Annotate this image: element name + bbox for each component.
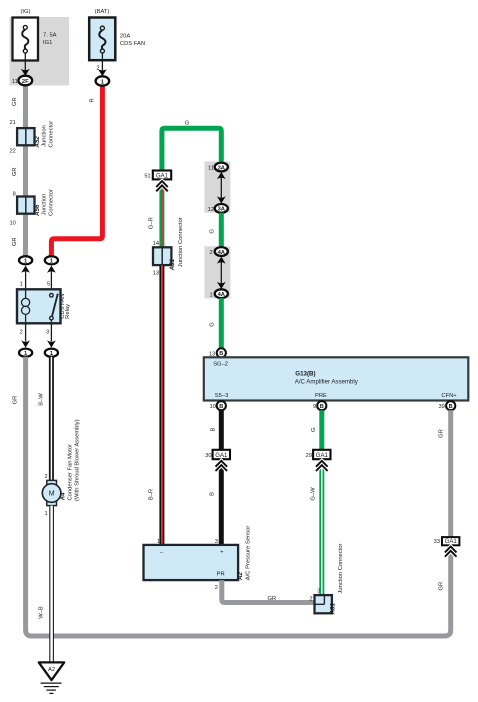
svg-text:33: 33	[434, 539, 440, 545]
svg-text:GR: GR	[12, 97, 18, 106]
svg-text:G: G	[209, 322, 215, 327]
svg-text:IG1: IG1	[43, 40, 52, 46]
shield chevron (GA1 33)	[445, 547, 457, 557]
svg-text:GR: GR	[12, 396, 18, 405]
wire GR (pin 39 to GA1 33)	[448, 410, 453, 537]
node B (pin 39 CFN+)	[446, 401, 455, 410]
svg-text:B–W: B–W	[38, 393, 44, 406]
svg-text:30: 30	[205, 453, 211, 459]
svg-text:A2: A2	[48, 667, 55, 673]
fuse IG1 7.5A	[13, 9, 57, 61]
svg-text:A31: A31	[329, 602, 336, 615]
svg-text:20A: 20A	[120, 33, 130, 39]
svg-text:Junction: Junction	[42, 194, 48, 216]
svg-text:Connector: Connector	[48, 189, 54, 216]
svg-text:A/C Pressure Sensor: A/C Pressure Sensor	[245, 526, 251, 581]
arrowhead into oval (relay pin 1)	[21, 266, 30, 273]
connector oval 1 (below relay pin 3)	[45, 349, 58, 357]
svg-text:5: 5	[47, 282, 50, 288]
svg-text:3A: 3A	[218, 165, 226, 171]
svg-text:Junction Connector: Junction Connector	[338, 543, 344, 593]
svg-text:B–R: B–R	[148, 489, 154, 500]
svg-text:10: 10	[9, 220, 15, 226]
svg-text:1: 1	[45, 511, 48, 517]
junction connector A52	[9, 120, 54, 155]
svg-text:3A: 3A	[218, 207, 226, 213]
junction connector A56	[9, 189, 54, 226]
arrowhead into oval (below relay pin 3)	[47, 340, 56, 347]
svg-text:10: 10	[209, 404, 215, 410]
wire B (GA1 30 to sensor pin 3)	[219, 459, 224, 545]
connector oval 1 (relay pin 5 side)	[45, 256, 58, 264]
A/C pressure sensor A2	[144, 526, 252, 581]
svg-text:GR: GR	[439, 429, 445, 438]
junction connector A31	[315, 543, 344, 615]
ground A2	[39, 662, 64, 693]
svg-text:51: 51	[144, 173, 150, 179]
svg-text:G–W: G–W	[310, 487, 316, 501]
svg-text:G: G	[185, 120, 190, 126]
svg-text:B: B	[210, 427, 216, 431]
svg-text:Condenser Fan Motor: Condenser Fan Motor	[67, 444, 73, 500]
svg-text:G: G	[209, 229, 215, 234]
svg-text:4A: 4A	[218, 292, 226, 298]
shield point GA1 (33)	[442, 537, 459, 545]
fuse CDS FAN 20A (BAT)	[89, 9, 145, 60]
svg-text:9: 9	[313, 404, 316, 410]
node B (pin 9 PRE)	[317, 401, 326, 410]
connector line fuse IG1 to 2F	[24, 53, 26, 71]
svg-text:Connector: Connector	[48, 121, 54, 148]
svg-text:Junction: Junction	[42, 125, 48, 147]
svg-text:22: 22	[9, 149, 15, 155]
svg-text:2: 2	[309, 596, 312, 602]
svg-text:B: B	[320, 404, 324, 410]
connector pair 4A (pins 2/1)	[204, 246, 230, 298]
svg-text:GR: GR	[12, 237, 18, 246]
svg-text:11: 11	[12, 79, 18, 85]
svg-text:GR: GR	[267, 596, 276, 602]
connector oval 2F	[18, 76, 32, 86]
ground point GA1 (51)	[153, 171, 171, 180]
svg-text:G13(B): G13(B)	[295, 370, 315, 377]
svg-text:M: M	[49, 489, 55, 498]
wire relay pin 3 lead	[50, 323, 52, 341]
svg-text:3: 3	[46, 329, 49, 335]
shield point GA1 (30)	[213, 450, 230, 459]
svg-text:1: 1	[20, 282, 23, 288]
svg-text:A4: A4	[59, 492, 66, 501]
svg-text:2F: 2F	[22, 79, 29, 85]
svg-text:2: 2	[210, 250, 213, 256]
connector oval 1 (relay pin 1 side)	[19, 256, 32, 264]
motor A4 condenser fan motor	[42, 419, 80, 505]
svg-text:R: R	[90, 98, 96, 102]
wire G (top loop GA1 to connector 3A)	[162, 128, 221, 170]
svg-text:2: 2	[45, 474, 48, 480]
svg-text:PR: PR	[217, 571, 225, 577]
wire G-R (GA1 51 to A51 pin 14)	[159, 179, 164, 247]
arrowhead into oval 1	[98, 69, 107, 76]
svg-text:GR: GR	[12, 167, 18, 176]
svg-text:B: B	[210, 492, 216, 496]
svg-text:8: 8	[13, 191, 16, 197]
svg-text:39: 39	[438, 404, 444, 410]
svg-text:PRE: PRE	[315, 393, 327, 399]
svg-text:GA1: GA1	[316, 453, 329, 459]
svg-text:21: 21	[9, 120, 15, 126]
svg-text:GA1: GA1	[156, 173, 169, 179]
wire W-B (motor to ground A2)	[49, 506, 54, 663]
svg-text:(IG): (IG)	[21, 9, 31, 15]
svg-text:W–B: W–B	[38, 606, 44, 619]
node B (pin 13 SG-2)	[217, 348, 226, 357]
svg-text:2: 2	[20, 329, 23, 335]
svg-text:(BAT): (BAT)	[95, 9, 110, 15]
svg-text:12: 12	[208, 207, 214, 213]
svg-text:A52: A52	[34, 136, 41, 149]
svg-text:GA1: GA1	[215, 453, 228, 459]
svg-text:A2: A2	[237, 572, 244, 581]
wire B-R (A51 pin 13 to pressure sensor pin 1)	[159, 265, 164, 545]
wire G (pin 9 to GA1 29)	[319, 410, 324, 450]
svg-text:11: 11	[208, 166, 214, 172]
svg-text:SG–2: SG–2	[213, 361, 228, 367]
svg-text:A56: A56	[34, 204, 41, 217]
wire B-W (relay pin 3 to motor)	[49, 357, 54, 481]
svg-text:1: 1	[210, 292, 213, 298]
wire relay pin 1 lead	[25, 272, 27, 290]
wire R segment (fuse CDS FAN to relay pin 5)	[51, 86, 102, 257]
svg-text:S5–3: S5–3	[215, 393, 229, 399]
arrowhead into oval (below relay pin 2)	[21, 340, 30, 347]
svg-text:G: G	[311, 427, 317, 432]
wire GR (relay pin 2 to CFN+ via bottom run)	[26, 357, 451, 636]
connector pair 3A (pins 11/12)	[204, 161, 230, 213]
svg-text:2: 2	[215, 585, 218, 591]
wire relay pin 5 lead	[50, 272, 52, 295]
svg-text:4A: 4A	[218, 250, 226, 256]
relay CDS FAN	[17, 289, 71, 323]
shield point GA1 (29)	[313, 450, 330, 459]
shield chevron (GA1 29)	[316, 461, 328, 471]
svg-text:A/C Amplifier Assembly: A/C Amplifier Assembly	[295, 379, 359, 386]
svg-text:G–R: G–R	[148, 217, 154, 229]
wire G (1 4A to SG-2)	[219, 298, 224, 348]
connector line fuse to oval 1	[101, 53, 103, 71]
svg-text:B: B	[449, 404, 453, 410]
wire relay pin 2 lead	[25, 323, 27, 341]
svg-text:Relay: Relay	[65, 304, 71, 319]
svg-text:Junction Connector: Junction Connector	[178, 217, 184, 267]
wire B (pin 10 to GA1 30)	[219, 410, 224, 450]
svg-text:CFN+: CFN+	[441, 393, 457, 399]
arrowhead into 2F	[21, 69, 30, 76]
wire G (12 3A to 2 4A)	[219, 213, 224, 247]
svg-text:CDS FAN: CDS FAN	[120, 41, 145, 47]
arrowhead into oval (relay pin 5)	[47, 266, 56, 273]
shield chevron (GA1 51)	[156, 181, 168, 191]
junction block panel (IG)	[10, 17, 70, 86]
svg-text:3: 3	[317, 589, 320, 595]
connector oval 1 (BAT)	[96, 76, 110, 85]
wire GR (sensor pin 2 to A31 pin 2)	[222, 580, 315, 602]
svg-text:13: 13	[153, 271, 159, 277]
node B (pin 10 S5-3)	[217, 401, 226, 410]
wire GR segment (fuse IG1 to relay pin 1)	[23, 86, 28, 257]
A/C amplifier assembly G13(B)	[204, 357, 469, 400]
svg-text:B: B	[219, 404, 223, 410]
svg-text:(With Shroud Blower Assembly): (With Shroud Blower Assembly)	[74, 419, 80, 501]
svg-text:A51: A51	[169, 258, 176, 271]
svg-text:GR: GR	[439, 582, 445, 591]
shield chevron (GA1 30)	[216, 461, 228, 471]
svg-text:29: 29	[306, 453, 312, 459]
svg-text:7. 5A: 7. 5A	[43, 33, 57, 39]
connector oval 1 (below relay pin 2)	[19, 349, 32, 357]
wire G-W (GA1 29 to A31 pin 3)	[319, 459, 324, 595]
svg-text:B: B	[219, 351, 223, 357]
junction connector A51	[153, 217, 184, 271]
